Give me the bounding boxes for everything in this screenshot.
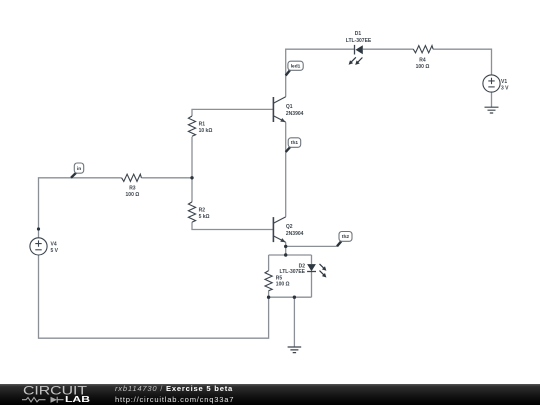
svg-text:3 V: 3 V [501, 85, 509, 91]
resistor R4 [413, 46, 433, 53]
node flag in [71, 163, 84, 178]
wire: R4 right to V1 plus terminal [433, 49, 492, 75]
svg-text:Q1: Q1 [286, 104, 293, 110]
wire: V1 minus terminal to ground [491, 92, 493, 107]
svg-text:100 Ω: 100 Ω [126, 192, 140, 198]
svg-text:LAB: LAB [65, 395, 90, 404]
voltage source V4 [30, 238, 47, 255]
node flag th2 [337, 232, 352, 247]
junction parallel bottom left [267, 296, 270, 299]
wire: R1 bottom to node A to R2 top [191, 137, 193, 202]
svg-text:R1: R1 [199, 122, 206, 128]
wire: D2 anode stub [311, 255, 313, 264]
wire: th2 flag stub [286, 245, 337, 247]
junction node A (R1/R2/R3) [190, 176, 193, 179]
wire: R3 right to node A [141, 177, 192, 179]
wire: V4 minus down and along bottom to R5/D2 bottom node [39, 255, 269, 338]
footer bar [0, 384, 540, 405]
CircuitLab logo wordmark [23, 385, 90, 404]
svg-text:2N3904: 2N3904 [286, 231, 304, 237]
resistor R3 [122, 174, 142, 181]
wire: bottom node to center ground [293, 297, 295, 347]
junction above V4 [37, 227, 40, 230]
junction Q2 emitter / th2 [284, 245, 287, 248]
svg-text:R2: R2 [199, 207, 206, 213]
resistor R1 [188, 116, 195, 136]
wire: input net left of R3 [39, 178, 122, 238]
wire: Q1 collector up to top rail and to D1 cathode [286, 49, 355, 97]
svg-text:R5: R5 [276, 275, 283, 281]
junction parallel top [284, 253, 287, 256]
svg-text:LTL-307EE: LTL-307EE [346, 38, 372, 44]
CircuitLab logo resistor-diode symbol [22, 397, 64, 403]
ground center [288, 347, 302, 353]
wire: parallel section bottom rail [269, 296, 312, 298]
svg-text:10 kΩ: 10 kΩ [199, 128, 213, 134]
svg-text:led1: led1 [291, 64, 301, 70]
svg-text:D1: D1 [355, 31, 362, 37]
svg-text:V4: V4 [51, 241, 57, 247]
wire: R1 top to Q1 base [192, 109, 273, 116]
resistor R5 [265, 271, 272, 291]
wire: parallel section top rail [269, 254, 312, 256]
node flag th1 [286, 138, 301, 152]
wire: D2 cathode stub [311, 272, 313, 297]
svg-text:100 Ω: 100 Ω [276, 282, 290, 288]
svg-text:th2: th2 [342, 234, 350, 240]
svg-text:in: in [77, 166, 81, 172]
svg-text:100 Ω: 100 Ω [416, 64, 430, 70]
LED D1 [349, 45, 363, 65]
wire: R5 bottom stub [268, 291, 270, 298]
svg-text:LTL-307EE: LTL-307EE [280, 269, 306, 275]
wire: Q1 emitter to Q2 collector (net th1) [285, 122, 287, 217]
transistor Q2 [273, 217, 285, 242]
junction ground stub [293, 296, 296, 299]
svg-text:5 kΩ: 5 kΩ [199, 214, 210, 220]
ground under V1 [485, 107, 499, 113]
svg-text:R4: R4 [419, 57, 426, 63]
transistor Q1 [273, 97, 285, 122]
svg-text:R3: R3 [129, 186, 136, 192]
voltage source V1 [483, 75, 500, 92]
wire: Q2 emitter down to parallel section top (net th2) [285, 242, 287, 255]
wire: D1 anode to R4 left [363, 48, 414, 50]
svg-text:Q2: Q2 [286, 224, 293, 230]
svg-text:5 V: 5 V [51, 248, 59, 254]
svg-text:2N3904: 2N3904 [286, 111, 304, 117]
wire: R5 top stub [268, 255, 270, 271]
svg-text:th1: th1 [291, 140, 299, 146]
node flag led1 [286, 61, 303, 75]
svg-text:V1: V1 [501, 79, 507, 85]
wire: R2 bottom to Q2 base [192, 222, 273, 229]
resistor R2 [188, 202, 195, 222]
LED D2 [307, 264, 326, 278]
